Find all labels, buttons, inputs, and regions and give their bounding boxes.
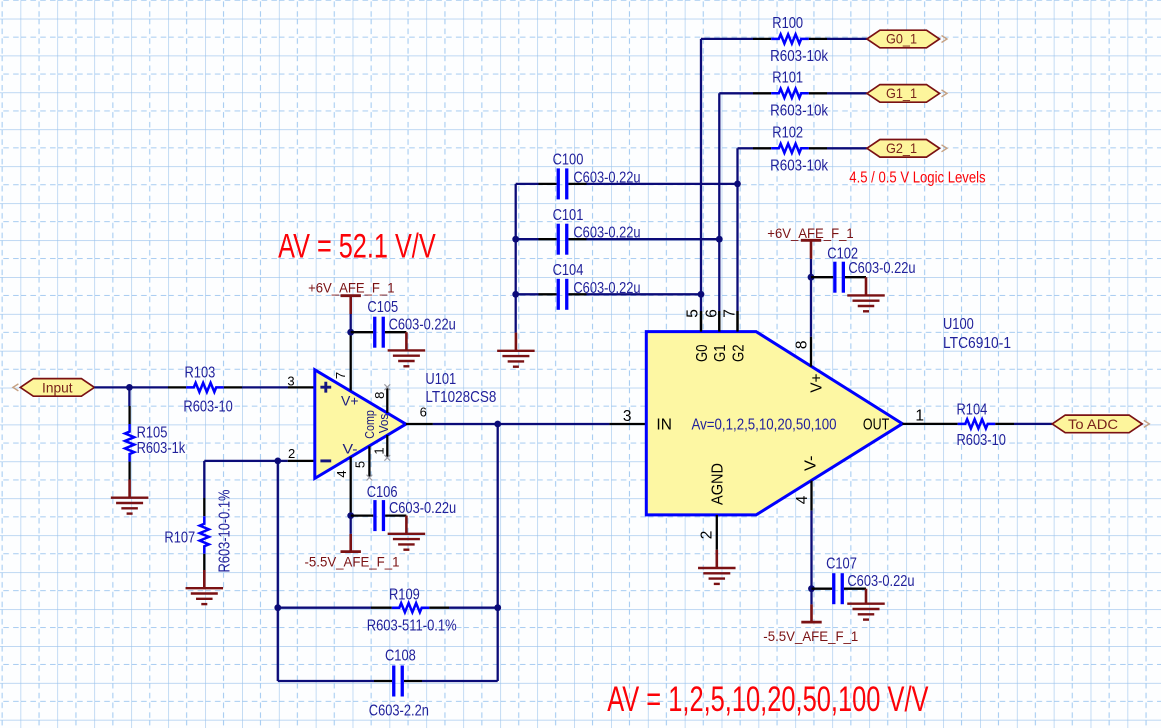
svg-text:2: 2 (698, 531, 715, 540)
pin number 2 (U101) (288, 446, 295, 461)
comment LTC6910-1 (943, 335, 1011, 352)
label AGND inside U100 rotated (710, 463, 727, 505)
capacitor C100 (539, 168, 587, 199)
svg-text:6: 6 (420, 405, 427, 420)
resistor R103 (186, 383, 224, 392)
svg-text:R107: R107 (164, 530, 195, 547)
amplifier U100 body (646, 332, 902, 515)
svg-text:1: 1 (915, 408, 924, 425)
wire G1 net (719, 93, 771, 331)
resistor R101 (771, 89, 809, 98)
label G1 inside U100 rotated (712, 345, 729, 363)
pin number 5 (U100) rotated (685, 309, 702, 318)
wire R104 to port To ADC (995, 423, 1052, 425)
label R103 (185, 365, 216, 382)
svg-text:G0_1: G0_1 (886, 32, 917, 47)
label Vos inside U101 rotated (376, 413, 391, 433)
power -5.5V_AFE_F_1 (U101) (305, 534, 400, 570)
wire U101 pin6 to U100 IN (406, 423, 645, 425)
label C105 (367, 299, 398, 316)
pin number 4 (U101) rotated (334, 470, 349, 477)
svg-text:C106: C106 (367, 484, 398, 501)
wire G2 net (738, 148, 772, 331)
svg-text:7: 7 (333, 372, 348, 379)
value C603-0.22u (C100) (573, 169, 640, 186)
svg-text:R100: R100 (772, 15, 803, 32)
value R603-1k (R105) (137, 440, 186, 457)
pin 7 stub (U101) (350, 332, 352, 390)
designator U100 (943, 316, 974, 333)
value C603-2.2n (C108) (369, 703, 429, 720)
junction V- node (U100) (808, 585, 815, 592)
op-amp minus input symbol (320, 459, 331, 462)
label R109 (389, 587, 420, 604)
svg-text:R101: R101 (772, 70, 803, 87)
resistor R102 (771, 144, 809, 153)
svg-text:C603-2.2n: C603-2.2n (369, 703, 429, 720)
svg-text:G2_1: G2_1 (886, 141, 917, 156)
wire C100 left (516, 183, 539, 185)
label IN inside U100 (656, 417, 672, 434)
red note logic levels (849, 170, 986, 187)
label C107 (826, 555, 857, 572)
port G0_1 (867, 30, 947, 48)
value R603-10k (R100) (770, 48, 828, 65)
wire R100 to port (809, 38, 867, 40)
red note AV = 1,2,5,10,20,50,100 V/V (607, 680, 929, 719)
pin lead R107 bottom (203, 554, 205, 570)
wire junction to R105 (128, 387, 131, 424)
svg-text:8: 8 (372, 392, 387, 399)
value C603-0.22u (C105) (389, 317, 456, 334)
pin 4 stub (U100) (810, 481, 812, 511)
label C104 (553, 262, 584, 279)
ground below U100 pin2 (698, 550, 736, 584)
port G1_1 (867, 85, 947, 103)
capacitor C107 (812, 573, 867, 604)
port Input (13, 379, 95, 397)
svg-text:R603-1k: R603-1k (137, 440, 186, 457)
ground below R107 (186, 570, 224, 604)
capacitor C102 (811, 262, 866, 293)
svg-text:R603-10k: R603-10k (770, 102, 828, 119)
wire R101 to port (809, 92, 867, 94)
ground right of C105 (388, 332, 426, 366)
pin 5 stub (U101) (367, 446, 373, 480)
red note AV = 52.1 V/V (278, 228, 436, 266)
svg-text:R603-10-0.1%: R603-10-0.1% (217, 489, 234, 572)
op-amp U101 body (315, 370, 406, 479)
svg-text:LT1028CS8: LT1028CS8 (425, 389, 496, 406)
pin number 1 (U100) (915, 408, 924, 425)
svg-text:5: 5 (353, 461, 368, 468)
ground right of C107 (847, 589, 885, 620)
junction output node (494, 421, 501, 428)
svg-text:C107: C107 (826, 555, 857, 572)
resistor R104 (958, 419, 996, 428)
wire C101 left (516, 238, 539, 240)
value R603-10 (R104) (957, 432, 1007, 449)
pin number 8 (U101) rotated (372, 392, 387, 399)
svg-text:R109: R109 (389, 587, 420, 604)
svg-text:+6V_AFE_F_1: +6V_AFE_F_1 (767, 225, 854, 241)
svg-text:U101: U101 (425, 371, 456, 388)
value C603-0.22u (C106) (389, 500, 456, 517)
resistor R105 (125, 424, 134, 462)
wire C108 right to feedback vertical (422, 424, 498, 681)
pin number 2 (U100) rotated (698, 531, 715, 540)
wire R102 to port (809, 147, 867, 149)
svg-text:G2: G2 (730, 345, 747, 363)
value R603-10 (R103) (183, 399, 233, 416)
svg-text:R104: R104 (957, 401, 988, 418)
pin 4 stub (U101) (350, 457, 352, 516)
svg-text:R103: R103 (185, 365, 216, 382)
capacitor C106 (351, 500, 407, 531)
port To ADC (1052, 415, 1149, 433)
wire feedback left vertical (277, 461, 279, 608)
svg-text:4: 4 (334, 470, 349, 477)
svg-text:G1: G1 (712, 345, 729, 363)
svg-text:C100: C100 (553, 152, 584, 169)
junction C104/G0 (698, 291, 705, 298)
pin number 8 (U100) rotated (793, 340, 810, 349)
pin number 6 (U101) (420, 405, 427, 420)
svg-text:C105: C105 (367, 299, 398, 316)
svg-text:LTC6910-1: LTC6910-1 (943, 335, 1011, 352)
wire C104 right to G0 line (587, 293, 702, 295)
capacitor C104 (539, 279, 587, 310)
svg-text:R603-10k: R603-10k (770, 157, 828, 174)
svg-text:V+: V+ (808, 373, 825, 392)
wire R107 top (203, 461, 205, 516)
label V+ inside U100 rotated (808, 373, 825, 392)
svg-text:Comp: Comp (362, 410, 377, 439)
resistor R100 (771, 34, 809, 43)
port G2_1 (867, 140, 947, 158)
wire +6V to pin7 junction (350, 314, 352, 332)
svg-text:Av=0,1,2,5,10,20,50,100: Av=0,1,2,5,10,20,50,100 (692, 417, 837, 434)
resistor R107 (200, 516, 209, 554)
junction C101/G1 (716, 236, 723, 243)
svg-text:8: 8 (793, 340, 810, 349)
wire R109 leads (278, 607, 498, 609)
label C101 (553, 207, 584, 224)
svg-text:Input: Input (42, 381, 73, 396)
power +6V_AFE_F_1 (U101) (308, 279, 395, 314)
power +6V_AFE_F_1 (U100) (767, 225, 854, 259)
comment LT1028CS8 (425, 389, 496, 406)
label OUT inside U100 (863, 417, 890, 434)
svg-text:+6V_AFE_F_1: +6V_AFE_F_1 (308, 279, 395, 295)
value C603-0.22u (C104) (573, 280, 640, 297)
pin 1 stub (U101) (384, 435, 390, 461)
pin 7 stub (U100) (736, 311, 738, 331)
wire Input to R103 (94, 386, 186, 388)
svg-text:4.5 / 0.5 V Logic Levels: 4.5 / 0.5 V Logic Levels (849, 170, 986, 187)
svg-text:To ADC: To ADC (1068, 417, 1118, 432)
pin number 1 (U101) rotated (371, 447, 386, 454)
svg-text:C603-0.22u: C603-0.22u (848, 260, 915, 277)
svg-text:IN: IN (656, 417, 672, 434)
pin 2 stub (U100) (716, 515, 718, 550)
pin 6 stub (U100) (718, 311, 720, 331)
pin 8 stub (U101) (384, 384, 390, 413)
pin number 3 (U101) (287, 373, 294, 388)
svg-text:V-: V- (343, 442, 358, 458)
label C106 (367, 484, 398, 501)
wire ground stack vertical (515, 184, 517, 333)
capacitor C101 (539, 224, 587, 255)
value R603-511-0.1% (R109) (367, 617, 457, 634)
svg-text:1: 1 (371, 447, 386, 454)
value R603-10k (R102) (770, 157, 828, 174)
op-amp plus input symbol (320, 382, 331, 393)
label C102 (827, 246, 858, 263)
junction R109 right (494, 604, 501, 611)
capacitor C108 (374, 666, 422, 697)
junction C100/G2 (734, 181, 741, 188)
svg-text:OUT: OUT (863, 417, 890, 434)
label V- inside U100 rotated (802, 456, 819, 472)
pin 8 stub (U100) (810, 337, 812, 367)
value C603-0.22u (C107) (847, 573, 914, 590)
svg-text:-5.5V_AFE_F_1: -5.5V_AFE_F_1 (763, 628, 858, 644)
resistor R109 (392, 603, 430, 612)
wire pin2 net horizontal (204, 460, 314, 462)
value C603-0.22u (C102) (848, 260, 915, 277)
wire +6V to U100 pin8 (810, 259, 812, 337)
junction pin2 node (274, 458, 281, 465)
designator U101 (425, 371, 456, 388)
wire U100 pin4 to -5.5V (810, 511, 812, 605)
junction C104 left (512, 291, 519, 298)
pin 5 stub (U100) (700, 311, 702, 331)
svg-text:R603-511-0.1%: R603-511-0.1% (367, 617, 457, 634)
junction V- node (U101) (347, 512, 354, 519)
junction C101 left (512, 236, 519, 243)
label R107 (164, 530, 195, 547)
junction V+ node (U100) (808, 274, 815, 281)
label R105 (137, 424, 168, 441)
svg-text:6: 6 (704, 309, 721, 318)
wire C104 left (516, 293, 539, 295)
ground below R105 (111, 480, 149, 514)
wire left vertical to C108 row (278, 608, 374, 681)
power -5.5V_AFE_F_1 (U100) (763, 604, 858, 644)
svg-text:V+: V+ (341, 393, 359, 409)
wire C101 right to G1 line (587, 238, 720, 240)
label G0 inside U100 rotated (694, 344, 711, 362)
label R104 (957, 401, 988, 418)
label V+ inside U101 (341, 393, 359, 409)
svg-text:C603-0.22u: C603-0.22u (847, 573, 914, 590)
wire C100 right to G2 line (587, 183, 738, 185)
svg-text:G0: G0 (694, 344, 711, 362)
svg-text:3: 3 (287, 373, 294, 388)
wire R103 to op-amp pin3 (224, 386, 315, 388)
svg-text:5: 5 (685, 309, 702, 318)
svg-text:G1_1: G1_1 (886, 86, 917, 101)
label C100 (553, 152, 584, 169)
junction V+ node (U101) (347, 329, 354, 336)
label G2 inside U100 rotated (730, 345, 747, 363)
capacitor C105 (351, 317, 407, 348)
label Comp inside U101 rotated (362, 410, 377, 439)
svg-text:C104: C104 (553, 262, 584, 279)
junction R109 left (274, 604, 281, 611)
svg-text:R102: R102 (772, 125, 803, 142)
svg-text:Vos: Vos (376, 413, 391, 433)
svg-text:C603-0.22u: C603-0.22u (389, 317, 456, 334)
pin number 6 (U100) rotated (704, 309, 721, 318)
pin number 4 (U100) rotated (794, 495, 811, 504)
svg-text:U100: U100 (943, 316, 974, 333)
label R100 (772, 15, 803, 32)
pin lead R105 bottom (128, 462, 130, 480)
wire G0 net (701, 39, 771, 332)
pin number 3 (U100 IN) (623, 408, 632, 425)
junction input node (126, 384, 133, 391)
value R603-10-0.1% (R107) rotated (217, 489, 234, 572)
label Av gains inside U100 (692, 417, 837, 434)
svg-text:7: 7 (722, 309, 739, 318)
wire V- node to -5.5V (350, 516, 352, 534)
pin number 7 (U100) rotated (722, 309, 739, 318)
label V- inside U101 (343, 442, 358, 458)
pin number 7 (U101) rotated (333, 372, 348, 379)
svg-text:2: 2 (288, 446, 295, 461)
svg-text:AV = 52.1 V/V: AV = 52.1 V/V (278, 228, 436, 266)
label R101 (772, 70, 803, 87)
svg-text:C101: C101 (553, 207, 584, 224)
svg-text:AV = 1,2,5,10,20,50,100 V/V: AV = 1,2,5,10,20,50,100 V/V (607, 680, 929, 719)
label C108 (385, 648, 416, 665)
pin number 5 (U101) rotated (353, 461, 368, 468)
pin 1 wire (U100 OUT) (902, 423, 957, 425)
ground below cap stack (497, 333, 535, 367)
svg-text:-5.5V_AFE_F_1: -5.5V_AFE_F_1 (305, 554, 400, 570)
label R102 (772, 125, 803, 142)
svg-text:R603-10k: R603-10k (770, 48, 828, 65)
value C603-0.22u (C101) (573, 225, 640, 242)
ground right of C102 (847, 277, 885, 311)
svg-text:R603-10: R603-10 (957, 432, 1007, 449)
value R603-10k (R101) (770, 102, 828, 119)
svg-text:4: 4 (794, 495, 811, 504)
svg-text:V-: V- (802, 456, 819, 472)
svg-text:AGND: AGND (710, 463, 727, 505)
svg-text:R603-10: R603-10 (183, 399, 233, 416)
svg-text:3: 3 (623, 408, 632, 425)
ground right of C106 (388, 516, 426, 550)
svg-text:C108: C108 (385, 648, 416, 665)
svg-text:C603-0.22u: C603-0.22u (389, 500, 456, 517)
